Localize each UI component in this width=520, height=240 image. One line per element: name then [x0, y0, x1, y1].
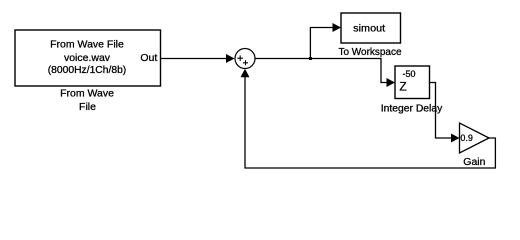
plus sign left input: [237, 55, 243, 61]
svg-text:To Workspace: To Workspace: [339, 46, 402, 58]
wire Gain output feedback to Sum bottom: [245, 76, 495, 168]
gain block (triangle): [460, 123, 490, 153]
label From Wave / File: [60, 88, 114, 113]
wire branch up to simout: [310, 28, 333, 59]
svg-text:0.9: 0.9: [460, 133, 473, 143]
junction node: [309, 57, 312, 60]
arrowhead into simout: [333, 23, 342, 32]
block From Wave File: [15, 30, 161, 86]
wire Integer Delay output to Gain: [430, 83, 453, 139]
svg-text:voice.wav: voice.wav: [64, 52, 111, 64]
arrowhead into Sum left: [226, 54, 235, 63]
arrowhead into Integer Delay: [387, 78, 396, 87]
svg-text:Gain: Gain: [463, 156, 485, 168]
wire From Wave File Out to Sum: [161, 58, 227, 60]
block Integer Delay: [395, 66, 430, 99]
sum block (circle): [235, 49, 255, 69]
svg-text:From Wave File: From Wave File: [50, 39, 124, 51]
svg-text:From Wave: From Wave: [60, 88, 114, 100]
svg-text:Out: Out: [140, 52, 157, 64]
svg-text:-50: -50: [402, 69, 415, 79]
block simout (To Workspace): [341, 13, 401, 43]
svg-text:Z: Z: [399, 80, 406, 94]
arrowhead into Gain: [451, 134, 460, 143]
svg-text:Integer Delay: Integer Delay: [381, 103, 443, 115]
svg-text:simout: simout: [353, 22, 385, 34]
plus sign bottom input: [243, 60, 248, 65]
arrowhead into Sum bottom: [241, 69, 250, 78]
svg-text:(8000Hz/1Ch/8b): (8000Hz/1Ch/8b): [48, 64, 127, 76]
wire Sum output to branch and delay corner: [255, 59, 388, 83]
svg-text:File: File: [79, 101, 96, 113]
